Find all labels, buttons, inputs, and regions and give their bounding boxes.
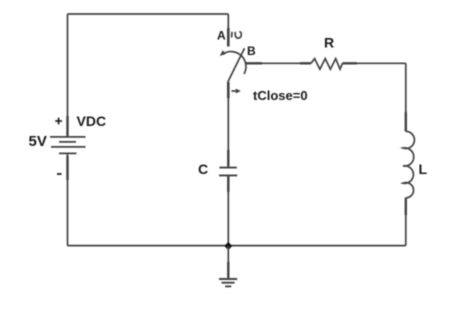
- pin stub battery plus (thick): [66, 116, 68, 136]
- svg-text:R: R: [324, 35, 334, 51]
- label + polarity: [55, 118, 62, 125]
- voltage source VDC battery symbol: [50, 137, 86, 154]
- pin capacitor bottom (thick): [227, 176, 229, 192]
- wire right rail upper (corner to inductor): [405, 63, 407, 131]
- inductor L coil: [403, 131, 414, 197]
- pin switch terminal bottom (thick): [227, 82, 230, 98]
- pin resistor right (thick): [343, 62, 358, 64]
- resistor R zigzag: [311, 59, 343, 70]
- wire switch bottom pin down to capacitor: [227, 82, 229, 167]
- pin inductor bottom (thick): [405, 198, 407, 215]
- pin capacitor top (thick): [227, 150, 229, 167]
- svg-text:tClose=0: tClose=0: [253, 88, 308, 103]
- pin switch terminal A (thick): [227, 28, 230, 47]
- svg-text:VDC: VDC: [77, 113, 107, 129]
- svg-text:L: L: [419, 161, 428, 177]
- switch tClose blade: [228, 48, 245, 82]
- wire left rail upper (top to battery +): [67, 14, 69, 137]
- switch tClose travel arc with arrow: [223, 52, 246, 74]
- wire resistor to top-right corner: [343, 62, 406, 64]
- svg-text:5V: 5V: [29, 133, 47, 150]
- wire node B to resistor: [246, 62, 311, 64]
- switch symbol squiggle marker: [232, 32, 242, 38]
- pin resistor left (thick): [300, 62, 311, 64]
- wire top horizontal (battery+ to switch): [68, 13, 229, 15]
- pin stub battery minus (thick): [66, 156, 68, 180]
- wire capacitor bottom to junction: [227, 175, 229, 245]
- wire bottom rail: [68, 245, 406, 247]
- wire switch top pin (node A drop): [227, 14, 229, 47]
- junction node dot (diamond): [224, 242, 232, 250]
- wire left rail lower (battery - to bottom rail): [67, 153, 69, 245]
- label - polarity: [57, 173, 62, 175]
- svg-text:B: B: [247, 44, 256, 58]
- pin inductor top (thick): [405, 112, 407, 131]
- svg-text:A: A: [217, 29, 226, 43]
- switch small direction arrow: [232, 89, 241, 94]
- pin switch terminal B (thick): [246, 62, 262, 64]
- svg-text:C: C: [198, 161, 208, 177]
- wire right rail lower (inductor to bottom rail): [405, 198, 407, 246]
- capacitor C plates: [219, 168, 237, 176]
- ground 0 symbol: [219, 246, 237, 286]
